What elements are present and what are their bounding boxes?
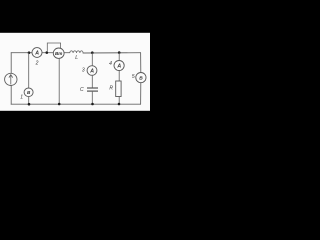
voltmeter B1 <box>24 88 33 97</box>
voltmeter B5 (on right edge) <box>136 73 146 83</box>
wattmeter Bt <box>53 48 64 58</box>
ammeter A3 <box>87 66 97 76</box>
node dot: top bus / resistor branch <box>118 51 121 54</box>
wire: wattmeter voltage-coil jumper (bracket over to circle top) <box>47 43 60 52</box>
node dot: top bus / capacitor branch <box>91 51 94 54</box>
node dot: bottom bus / wattmeter lead <box>58 103 61 106</box>
wire: right edge lower segment (voltmeter B5 to bottom-right corner) <box>140 83 142 105</box>
ammeter A4 <box>114 61 124 71</box>
resistor R <box>116 81 121 97</box>
wire: bottom bus from bottom-left to bottom-right corner <box>11 103 140 105</box>
current source (circle with upward arrow), left edge <box>5 73 17 85</box>
svg-text:R: R <box>109 86 113 92</box>
wire: voltmeter B1 branch upper segment <box>28 53 30 88</box>
wire: lead from resistor bottom to bottom bus <box>118 97 120 105</box>
wire: voltmeter B1 branch lower segment <box>28 97 30 105</box>
node dot: top bus / voltmeter B1 branch <box>28 51 31 54</box>
svg-text:4: 4 <box>109 61 112 67</box>
node dot: bottom bus / capacitor branch <box>91 103 94 106</box>
wire: resistor branch lead from top bus to ammeter A4 <box>118 53 120 61</box>
inductor L (coil with 4 humps) <box>70 51 83 53</box>
ammeter A2 <box>32 48 42 58</box>
wire: left edge lower segment (source down to bottom-left corner) <box>10 86 12 105</box>
svg-text:3: 3 <box>82 68 85 74</box>
wire: right edge upper segment (top-right corner to voltmeter B5) <box>140 53 142 73</box>
top letterbox bar <box>0 0 150 33</box>
svg-text:Вт: Вт <box>55 51 62 56</box>
node dot: bottom bus / voltmeter B1 branch <box>28 103 31 106</box>
wire: lead from capacitor bottom plate to bottom bus <box>91 92 93 105</box>
wire: top bus from top-left corner to top-right corner <box>11 52 70 54</box>
bottom letterbox bar <box>0 111 150 150</box>
svg-text:1: 1 <box>20 95 23 101</box>
svg-text:L: L <box>75 55 78 61</box>
svg-text:A: A <box>89 68 94 74</box>
wire: lead from ammeter A4 to resistor top <box>118 71 120 82</box>
svg-text:C: C <box>80 87 84 93</box>
svg-text:В: В <box>139 76 143 82</box>
capacitor C <box>87 88 98 91</box>
white schematic background <box>0 33 150 111</box>
node dot: wattmeter voltage-coil tap on top bus <box>46 51 49 54</box>
svg-text:5: 5 <box>132 74 135 80</box>
svg-text:A: A <box>116 63 121 69</box>
wire: wattmeter bottom lead down to bottom bus <box>58 58 60 104</box>
svg-text:A: A <box>34 50 39 56</box>
wire: lead from ammeter A3 to capacitor top plate <box>91 75 93 87</box>
svg-text:2: 2 <box>35 60 39 66</box>
node dot: bottom bus / resistor branch <box>118 103 121 106</box>
wire: left edge upper segment (corner down to source) <box>10 53 12 73</box>
wire: capacitor branch lead from top bus to ammeter A3 <box>91 53 93 66</box>
